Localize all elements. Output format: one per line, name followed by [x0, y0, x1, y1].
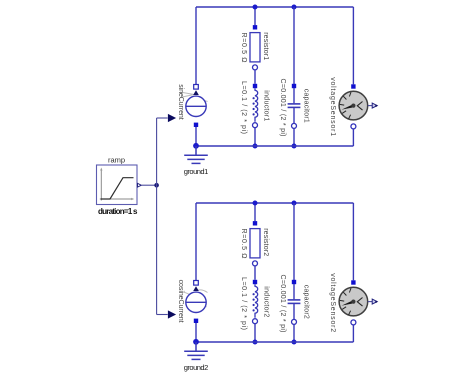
wire capacitor bottom plate to pin [293, 303, 295, 319]
signal bus wire vertical [156, 118, 158, 315]
pin sineCurrent.n (filled square) [194, 123, 198, 127]
wire bottom rail 1 [196, 145, 353, 147]
junction node ground1 [193, 143, 199, 149]
ramp output port y [138, 183, 142, 187]
output connector voltageSensor1.v [372, 103, 377, 108]
junction node rail/resistor [253, 5, 258, 10]
pin inductor1.p [253, 84, 257, 88]
svg-text:R=0.5 Ω: R=0.5 Ω [240, 229, 247, 259]
wire sensor to bottom rail [352, 129, 354, 146]
svg-text:capacitor2: capacitor2 [302, 285, 309, 319]
wire resistor2.n to inductor2.p [254, 266, 256, 280]
inductor inductor1 coil [253, 88, 258, 122]
pin inductor1.n (open circle) [253, 123, 258, 128]
wire resistor branch top [254, 7, 256, 25]
wire source n to ground node [195, 127, 197, 146]
junction node bottom rail/inductor [253, 144, 258, 149]
svg-text:voltageSensor2: voltageSensor2 [329, 273, 336, 332]
svg-text:ground1: ground1 [184, 167, 209, 176]
sensor voltageSensor2 gauge [339, 287, 368, 316]
ground ground2 [184, 342, 208, 359]
resistor resistor1 R=0.5 Ohm [250, 33, 260, 62]
wire capacitor to bottom rail [293, 129, 295, 146]
capacitor capacitor2 plates [288, 300, 301, 304]
svg-text:C=0.001 / (2 * pi): C=0.001 / (2 * pi) [279, 79, 286, 137]
svg-text:resistor1: resistor1 [262, 32, 269, 60]
wire bottom rail 2 [196, 341, 353, 343]
svg-text:capacitor1: capacitor1 [302, 89, 309, 123]
svg-text:C=0.001 / (2 * pi): C=0.001 / (2 * pi) [279, 275, 286, 333]
svg-text:ground2: ground2 [184, 363, 209, 372]
pin capacitor2.n (open circle) [292, 319, 297, 324]
signal wire sensor output v [368, 301, 372, 303]
block ramp [97, 165, 138, 205]
wire sensor branch top [352, 203, 354, 280]
pin voltageSensor2.n (open circle) [351, 320, 356, 325]
current source sineCurrent [180, 90, 208, 116]
sensor voltageSensor1 gauge [339, 91, 368, 120]
input connector sineCurrent.i [168, 114, 176, 122]
junction node rail/capacitor [292, 201, 297, 206]
wire sensor to bottom rail [352, 325, 354, 342]
svg-text:L=0.1 / (2 * pi): L=0.1 / (2 * pi) [240, 81, 247, 134]
wire top rail 1 [196, 6, 353, 8]
signal junction node [154, 183, 159, 188]
svg-text:duration=1 s: duration=1 s [98, 207, 138, 216]
signal wire to sineCurrent.i [157, 117, 168, 119]
junction node bottom rail/capacitor [292, 340, 297, 345]
pin voltageSensor1.p [351, 84, 355, 88]
pin resistor1.n (open circle) [253, 65, 258, 70]
svg-text:voltageSensor1: voltageSensor1 [329, 77, 336, 136]
wire inductor1.n to bottom rail [254, 128, 256, 146]
wire to capacitor top plate [293, 284, 295, 299]
pin inductor2.n (open circle) [253, 319, 258, 324]
svg-text:ramp: ramp [108, 156, 125, 165]
wire sensor branch top [352, 7, 354, 84]
wire resistor branch top [254, 203, 256, 221]
wire left branch top (source p) [195, 203, 197, 281]
pin voltageSensor2.p [351, 280, 355, 284]
pin capacitor1.n (open circle) [292, 123, 297, 128]
pin cosineCurrent.n (filled square) [194, 319, 198, 323]
capacitor capacitor1 plates [288, 104, 301, 108]
resistor resistor2 R=0.5 Ohm [250, 229, 260, 258]
wire capacitor to bottom rail [293, 325, 295, 342]
wire capacitor branch top [293, 7, 295, 84]
wire inductor2.n to bottom rail [254, 324, 256, 342]
wire capacitor bottom plate to pin [293, 107, 295, 123]
pin resistor2.n (open circle) [253, 261, 258, 266]
svg-text:inductor1: inductor1 [262, 90, 269, 121]
svg-text:R=0.5 Ω: R=0.5 Ω [240, 33, 247, 63]
pin cosineCurrent.p (open square) [194, 281, 199, 286]
current source cosineCurrent [183, 286, 208, 312]
wire capacitor branch top [293, 203, 295, 280]
svg-text:L=0.1 / (2 * pi): L=0.1 / (2 * pi) [240, 277, 247, 330]
junction node rail/resistor [253, 201, 258, 206]
svg-text:inductor2: inductor2 [262, 286, 269, 317]
wire top rail 2 [196, 202, 353, 204]
svg-text:resistor2: resistor2 [262, 228, 269, 256]
pin inductor2.p [253, 280, 257, 284]
inductor inductor2 coil [253, 284, 258, 318]
pin voltageSensor1.n (open circle) [351, 124, 356, 129]
junction node rail/capacitor [292, 5, 297, 10]
pin resistor2.p [253, 221, 257, 225]
signal wire sensor output v [368, 105, 372, 107]
signal wire ramp.y to node [142, 184, 157, 186]
svg-text:sineCurrent: sineCurrent [177, 84, 184, 120]
junction node bottom rail/capacitor [292, 144, 297, 149]
pin sineCurrent.p (open square) [194, 85, 199, 90]
junction node bottom rail/inductor [253, 340, 258, 345]
svg-text:cosineCurrent: cosineCurrent [177, 280, 184, 323]
wire resistor1.n to inductor1.p [254, 70, 256, 84]
wire left branch top (source p) [195, 7, 197, 85]
ground ground1 [184, 146, 208, 163]
output connector voltageSensor2.v [372, 299, 377, 304]
wire to capacitor top plate [293, 88, 295, 103]
wire source n to ground node [195, 323, 197, 342]
input connector cosineCurrent.i [168, 310, 176, 318]
signal wire to cosineCurrent.i [157, 314, 168, 316]
pin capacitor2.p [292, 280, 296, 284]
junction node ground2 [193, 339, 199, 345]
pin resistor1.p [253, 25, 257, 29]
pin capacitor1.p [292, 84, 296, 88]
